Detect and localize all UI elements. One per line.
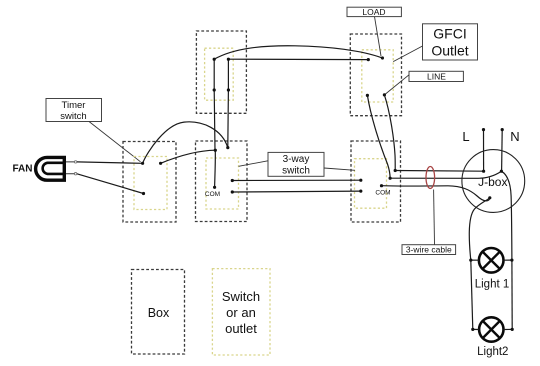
- svg-text:LINE: LINE: [427, 71, 446, 81]
- terminal GFCI load left: [367, 58, 370, 61]
- wire: fan hot to timer node A: [77, 162, 143, 163]
- svg-text:COM: COM: [205, 191, 220, 198]
- terminal Light 1 left: [469, 259, 472, 262]
- junction node A: [141, 162, 144, 165]
- wire: Light 2 right stub: [503, 328, 512, 330]
- leader wire: LOAD label to GFCI load terminal: [375, 17, 382, 56]
- junction top box left mid: [213, 88, 216, 91]
- wire: Light 1 left to Light 2 left: [471, 260, 473, 329]
- wire: fan right bar to terminals: [66, 162, 74, 174]
- wire: Light 1 left stub: [471, 259, 479, 261]
- wire: traveler 2 B2 to B3: [232, 190, 360, 193]
- box B4 top box: [196, 31, 246, 113]
- svg-text:Timer: Timer: [62, 100, 86, 111]
- svg-text:Outlet: Outlet: [431, 43, 468, 59]
- label 3-way switch: [268, 152, 324, 176]
- terminal R1 of B3: [394, 169, 397, 172]
- svg-text:FAN: FAN: [13, 163, 33, 174]
- wire: traveler 1 B2 to B3: [232, 179, 360, 181]
- wire: node R2 to J-box N: [390, 171, 501, 178]
- label 3-wire cable: [402, 245, 456, 255]
- wire: Light 1 right to Light 2 right: [511, 260, 513, 329]
- leader wire: 3-way label to box B2: [239, 161, 268, 167]
- svg-text:J-box: J-box: [478, 175, 507, 189]
- legend switch/outlet symbol (yellow): [212, 269, 270, 355]
- wire: supply L into J-box: [483, 130, 485, 172]
- wire: top box left leg down to J1: [213, 59, 216, 150]
- svg-text:switch: switch: [282, 166, 310, 177]
- leader wire: LINE label to line terminal: [384, 75, 409, 95]
- wire: junction J1 to COM of B2: [214, 150, 217, 187]
- svg-text:Light2: Light2: [477, 346, 508, 358]
- terminal GFCI line left: [366, 94, 369, 97]
- outlet outline (yellow) in box B4: [205, 48, 234, 100]
- junction node C: [142, 192, 145, 195]
- GFCI outlet outline (yellow) in box B5: [362, 50, 393, 102]
- terminal traveler T2 of B2: [231, 190, 234, 193]
- terminal supply L: [482, 128, 485, 131]
- wire: arc node A to node D: [143, 122, 228, 163]
- svg-text:Switch: Switch: [222, 289, 260, 304]
- lamp Light 2: [479, 317, 503, 341]
- terminal top box right: [227, 58, 230, 61]
- wire: supply N into J-box: [501, 130, 504, 172]
- svg-text:outlet: outlet: [225, 321, 257, 336]
- fan terminal bottom: [74, 173, 76, 175]
- svg-text:LOAD: LOAD: [362, 7, 385, 17]
- terminal traveler 2 of B3: [359, 190, 362, 193]
- box B5 GFCI box: [350, 34, 401, 116]
- junction node B: [159, 162, 162, 165]
- legend label Switch or an outlet: [222, 289, 260, 336]
- wire: node B to junction J1: [161, 150, 216, 163]
- junction J-box N: [500, 170, 503, 173]
- wire: GFCI line right down to node R1: [384, 95, 395, 171]
- switch outline (yellow) in box B3: [355, 159, 387, 209]
- terminal COM of B2: [213, 186, 216, 189]
- wire: node R1 to J-box L: [395, 170, 483, 173]
- wire: switched node down to Light 1 left: [469, 198, 490, 260]
- terminal GFCI line right: [383, 93, 386, 96]
- terminal Light 1 right: [510, 259, 513, 262]
- junction node D: [226, 146, 229, 149]
- fan motor symbol: [36, 157, 65, 180]
- svg-text:switch: switch: [60, 111, 86, 122]
- leader wire: 3-way label to box B3: [324, 168, 355, 170]
- svg-text:N: N: [510, 129, 519, 144]
- leader wire: timer label to node A: [89, 122, 141, 162]
- legend box symbol: [132, 270, 185, 355]
- wire: Light 1 right stub: [504, 259, 512, 261]
- label LOAD: [347, 7, 401, 17]
- wire: COM of B3 to J-box switched node: [382, 186, 490, 201]
- terminal supply N: [501, 128, 504, 131]
- terminal Light 2 left: [471, 328, 474, 331]
- box B2 middle 3-way switch: [196, 141, 248, 222]
- svg-text:Box: Box: [148, 306, 170, 320]
- svg-text:Light 1: Light 1: [475, 279, 510, 291]
- wire: arc top box to GFCI load right: [214, 46, 382, 59]
- terminal traveler T1 of B2: [231, 179, 234, 182]
- junction J-box switched: [488, 196, 491, 199]
- svg-text:3-wire cable: 3-wire cable: [406, 245, 452, 255]
- terminal Light 2 right: [511, 328, 514, 331]
- switch outline (yellow) in box B1: [134, 157, 167, 210]
- wire: top box right leg down to node D: [227, 59, 230, 147]
- svg-text:L: L: [462, 129, 469, 144]
- terminal GFCI load right: [381, 56, 384, 59]
- lamp Light 1: [479, 248, 504, 273]
- leader wire: 3-wire cable label to ellipse: [433, 190, 436, 245]
- wire: GFCI line left down to node R2: [367, 95, 390, 178]
- terminal COM of B3: [380, 184, 383, 187]
- label Timer switch: [46, 99, 102, 123]
- svg-text:COM: COM: [375, 189, 390, 196]
- junction top box right mid: [227, 88, 230, 91]
- wire: fan neutral to node C: [77, 174, 144, 194]
- box B1 timer switch: [123, 142, 176, 223]
- fan terminal top: [74, 161, 76, 163]
- wire: J-box N down to Light 1 right: [501, 171, 512, 260]
- switch outline (yellow) in box B2: [206, 158, 239, 209]
- svg-text:GFCI: GFCI: [433, 26, 466, 42]
- svg-text:or an: or an: [226, 305, 256, 320]
- box B3 right 3-way switch: [351, 141, 401, 222]
- label GFCI Outlet: [423, 24, 478, 60]
- 3-wire cable marker (red ellipse): [426, 167, 435, 189]
- wire: top box to GFCI load left: [228, 58, 368, 60]
- svg-text:3-way: 3-way: [283, 154, 310, 165]
- terminal top box left: [213, 58, 216, 61]
- J-box circle: [462, 150, 525, 213]
- terminal R2 of B3: [389, 177, 392, 180]
- label LINE: [409, 71, 463, 81]
- wire: Light 2 left stub: [473, 328, 480, 330]
- terminal traveler 1 of B3: [359, 179, 362, 182]
- leader wire: GFCI label to outlet: [393, 46, 422, 62]
- junction J1: [214, 149, 217, 152]
- junction J-box L: [482, 170, 485, 173]
